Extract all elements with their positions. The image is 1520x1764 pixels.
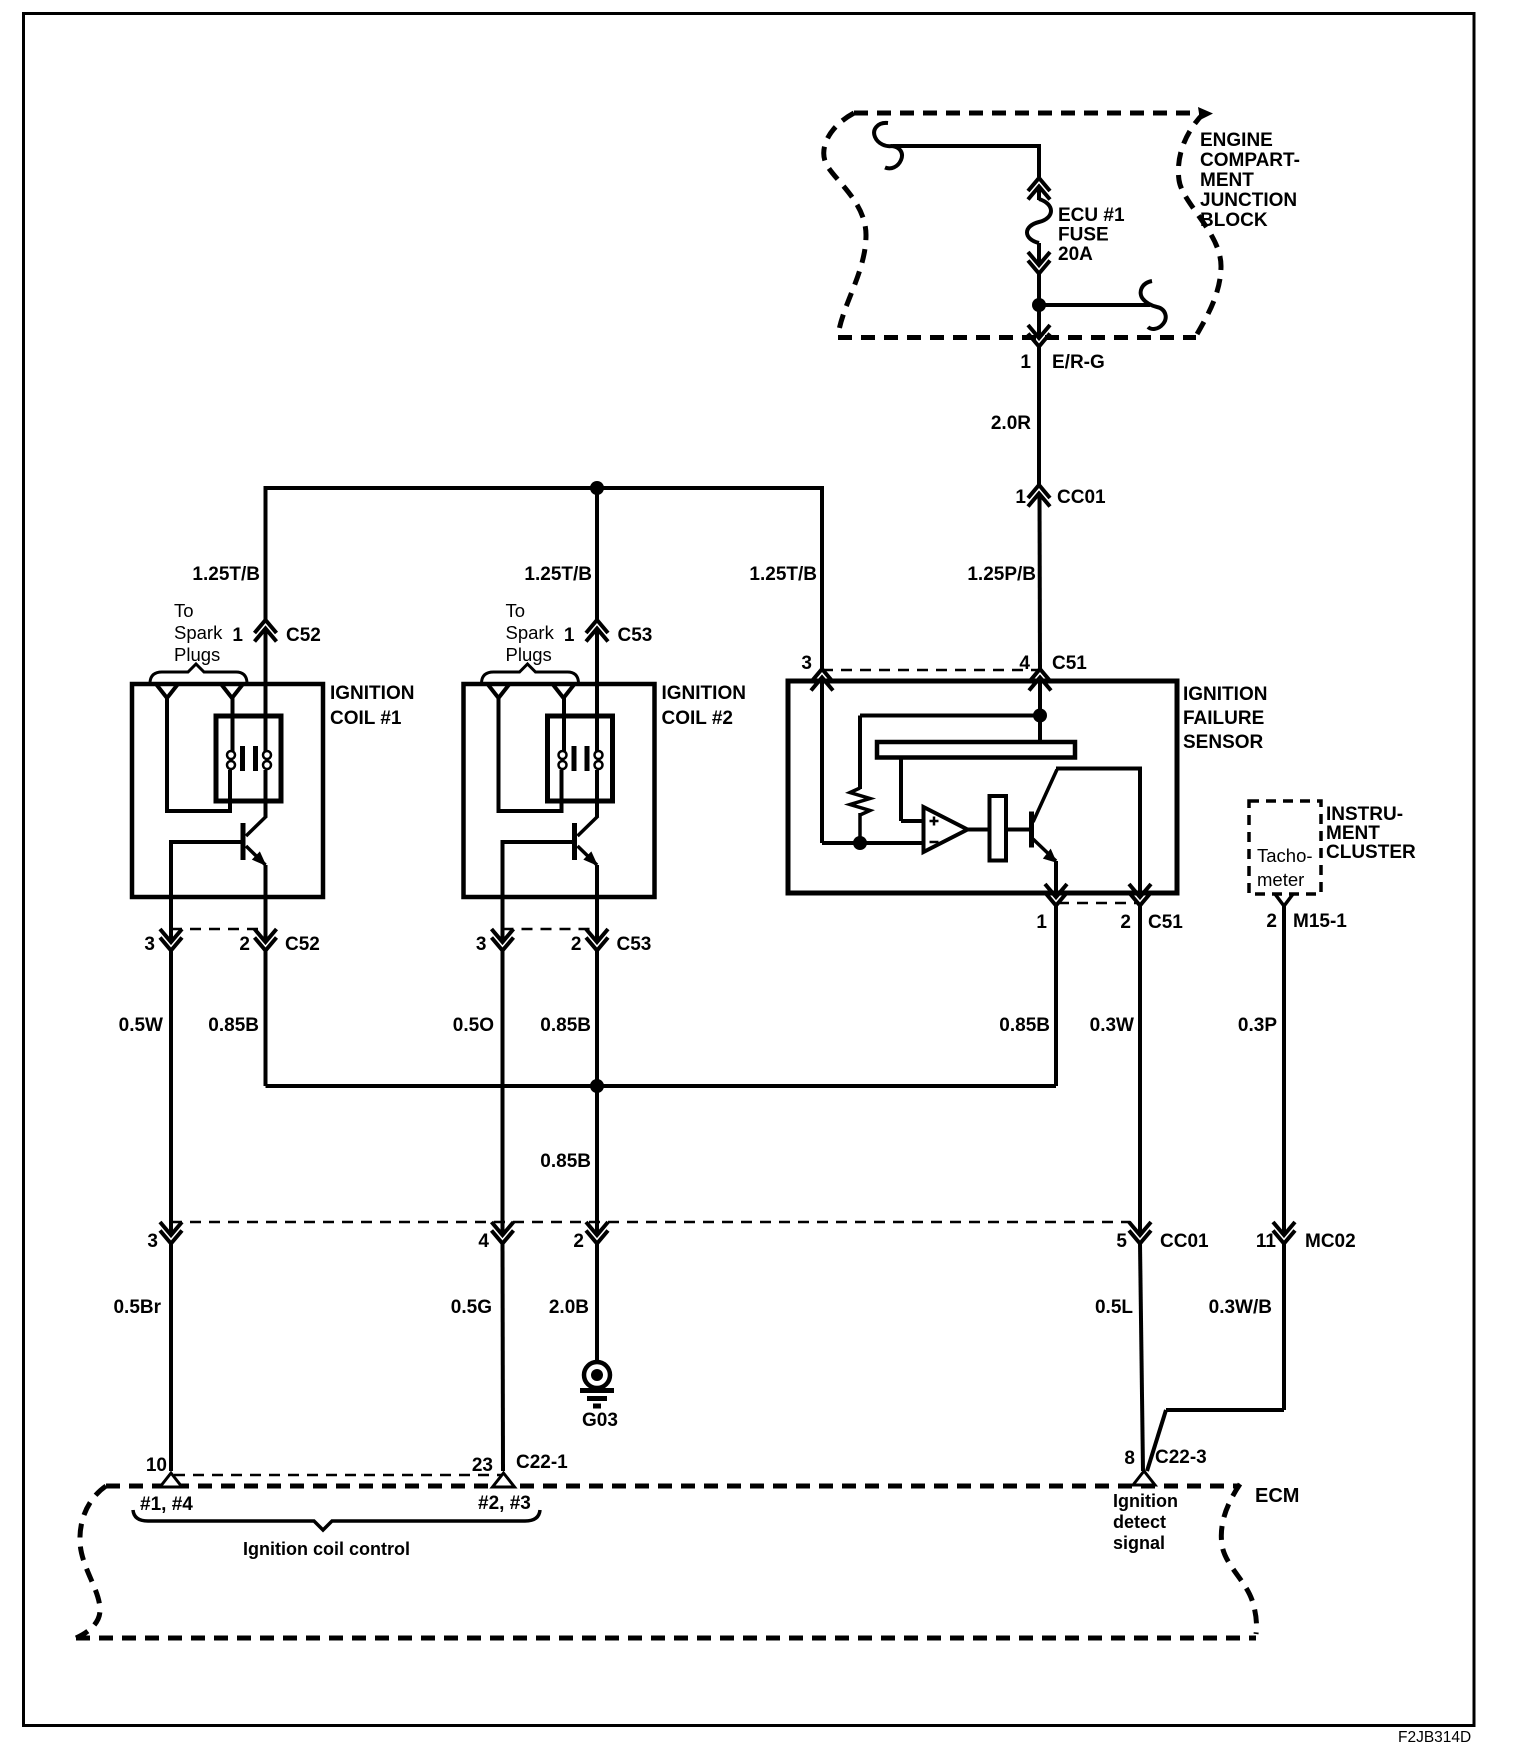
- wire: secondary loop to spark plugs: [499, 696, 562, 811]
- svg-text:3: 3: [801, 653, 812, 674]
- block: ECM (dashed outline): [76, 1484, 1257, 1638]
- junction: ground bus / coil2 tap: [590, 1079, 604, 1093]
- wire 0.3W: sensor pin 2 down: [1138, 906, 1142, 1234]
- connector C52 pin 2 (bottom): [255, 929, 277, 942]
- coupling stage C (isolator box): [990, 796, 1007, 861]
- wire 0.85B: sensor pin 1 to ground bus: [1054, 906, 1058, 1087]
- wire 1.25T/B: bus to C51 pin 3: [820, 486, 824, 669]
- svg-text:2: 2: [571, 934, 582, 955]
- svg-text:M15-1: M15-1: [1293, 911, 1347, 932]
- svg-text:ToSparkPlugs: ToSparkPlugs: [174, 600, 223, 665]
- ignition coil box: IGNITION COIL #1: [132, 684, 323, 897]
- wire: isolator to transistor base: [1006, 828, 1030, 832]
- svg-text:2: 2: [1266, 911, 1277, 932]
- wire 0.3W/B: MC02 pin 11 down: [1282, 1244, 1286, 1411]
- wire: tachometer branch to ECM pin 8: [1166, 1408, 1284, 1412]
- wire: plate tap to comparator plus: [899, 757, 903, 821]
- junction: fuse output node: [1032, 298, 1046, 312]
- wire: junction block top feed: [893, 144, 1039, 148]
- svg-text:INSTRU-MENTCLUSTER: INSTRU-MENTCLUSTER: [1326, 804, 1416, 863]
- wire: transistor base lead: [503, 840, 575, 844]
- connector C22-3 pin 8 (ECM): [1133, 1471, 1155, 1485]
- wire 0.5W: C52 pin 3 down: [169, 950, 173, 1233]
- svg-text:11: 11: [1256, 1231, 1277, 1252]
- wire: resistor top to supply node: [858, 716, 862, 790]
- wire: collector to pin 2 branch: [1056, 767, 1140, 771]
- svg-text:CC01: CC01: [1057, 487, 1106, 508]
- junction: top bus / coil2 tap: [590, 481, 604, 495]
- wire 0.5Br: CC01 pin 3 to ECM pin 10: [169, 1244, 173, 1472]
- svg-text:8: 8: [1124, 1448, 1135, 1469]
- svg-text:C53: C53: [617, 934, 652, 955]
- wire 0.5O: C53 pin 3 down: [501, 950, 505, 1233]
- svg-text:1: 1: [1015, 487, 1026, 508]
- svg-text:2: 2: [573, 1231, 584, 1252]
- wire 0.5G: CC01 pin 4 to ECM pin 23: [501, 1244, 506, 1472]
- brace: to spark plugs: [482, 664, 579, 682]
- transistor Q (IGNITION COIL #2) NPN driver: [575, 816, 599, 865]
- junction: sensor supply node: [1033, 709, 1047, 723]
- svg-text:0.5L: 0.5L: [1095, 1297, 1133, 1318]
- wire 1.25T/B: bus to C52 pin 1: [264, 486, 268, 620]
- svg-text:0.5W: 0.5W: [119, 1015, 163, 1036]
- wire: base lead to pin 3: [169, 897, 173, 940]
- junction: resistor bottom node: [853, 836, 867, 850]
- connector C51 pin 1 (sensor bottom): [1045, 884, 1067, 897]
- svg-text:0.3P: 0.3P: [1238, 1015, 1277, 1036]
- svg-text:2.0R: 2.0R: [991, 413, 1031, 434]
- svg-text:#2, #3: #2, #3: [478, 1493, 531, 1514]
- connector C52 pin 1 (top): [255, 620, 277, 633]
- dashed connector line C53 (bottom): [503, 928, 598, 931]
- svg-text:0.85B: 0.85B: [999, 1015, 1050, 1036]
- svg-text:C52: C52: [286, 625, 321, 646]
- connector CC01 pin 4: [492, 1222, 514, 1235]
- svg-text:1.25T/B: 1.25T/B: [524, 564, 592, 585]
- wire: transistor base lead: [171, 840, 243, 844]
- svg-text:C53: C53: [618, 625, 653, 646]
- dashed connector line C22-1 row: [174, 1474, 504, 1477]
- svg-text:IGNITIONFAILURESENSOR: IGNITIONFAILURESENSOR: [1183, 684, 1267, 753]
- wire: sensor pin 4 internal: [1038, 678, 1042, 745]
- spark plug terminal B: [553, 684, 575, 698]
- svg-text:IGNITIONCOIL #2: IGNITIONCOIL #2: [662, 683, 746, 729]
- connector C52 pin 3 (bottom): [160, 929, 182, 942]
- sensor box: IGNITION FAILURE SENSOR: [788, 681, 1177, 893]
- svg-text:Ignition coil control: Ignition coil control: [243, 1539, 410, 1559]
- svg-text:C22-1: C22-1: [516, 1452, 568, 1473]
- svg-text:0.3W: 0.3W: [1090, 1015, 1134, 1036]
- wire 0.5L: CC01 pin 5 to ECM pin 8: [1140, 1244, 1143, 1472]
- wire: emitter to pin 1: [1054, 861, 1058, 895]
- connector M15-1 pin 2 (cluster exit): [1275, 894, 1293, 906]
- svg-text:3: 3: [144, 934, 155, 955]
- dashed connector line C51 (bottom): [1058, 902, 1138, 905]
- wire 2.0R: E/R-G to CC01: [1037, 347, 1041, 486]
- svg-text:1: 1: [232, 625, 243, 646]
- connector MC02 pin 11: [1273, 1222, 1295, 1235]
- spark plug terminal A: [488, 684, 510, 698]
- svg-text:CC01: CC01: [1160, 1231, 1209, 1252]
- svg-text:C22-3: C22-3: [1155, 1447, 1207, 1468]
- wire: sensor pin 3 internal: [820, 678, 824, 844]
- connector E/R-G pin 1 (junction block exit): [1028, 325, 1050, 338]
- brace: ignition coil control group: [133, 1510, 540, 1530]
- wire 0.85B: bus to CC01 pin 2: [595, 1086, 599, 1233]
- svg-text:Ignitiondetectsignal: Ignitiondetectsignal: [1113, 1491, 1178, 1553]
- svg-text:0.5G: 0.5G: [451, 1297, 492, 1318]
- svg-text:ENGINECOMPART-MENTJUNCTIONBLOC: ENGINECOMPART-MENTJUNCTIONBLOCK: [1200, 130, 1300, 231]
- transistor Q2 (sensor output) NPN: [1032, 770, 1058, 863]
- ground G03: [580, 1362, 614, 1406]
- transformer T (IGNITION COIL #1): [216, 716, 281, 801]
- svg-text:2: 2: [239, 934, 250, 955]
- svg-text:0.5Br: 0.5Br: [113, 1297, 161, 1318]
- wire: ground bus (horizontal): [266, 1084, 1057, 1088]
- svg-text:0.3W/B: 0.3W/B: [1209, 1297, 1272, 1318]
- wire 1.25P/B: CC01 to C51 pin 4: [1038, 494, 1043, 670]
- svg-text:1.25T/B: 1.25T/B: [192, 564, 260, 585]
- connector CC01 pin 5: [1129, 1222, 1151, 1235]
- dashed connector line CC01 row: [171, 1221, 1130, 1224]
- wire 0.3P: tachometer to MC02: [1282, 906, 1286, 1233]
- svg-text:F2JB314D: F2JB314D: [1398, 1729, 1471, 1746]
- dashed connector line C52 (bottom): [171, 928, 266, 931]
- wire: emitter lead to pin 2: [595, 865, 599, 940]
- svg-text:4: 4: [478, 1231, 489, 1252]
- wire: internal node to comparator minus: [822, 841, 924, 845]
- connector CC01 pin 2: [586, 1222, 608, 1235]
- svg-text:0.85B: 0.85B: [208, 1015, 259, 1036]
- resistor R (sense): [850, 788, 870, 815]
- wire: comparator output: [968, 828, 990, 832]
- wire 0.85B: C53 pin 2 to ground bus: [595, 949, 599, 1086]
- wire: primary lead from connector 1: [595, 629, 599, 752]
- wire stub hook (left, inside junction block): [874, 123, 902, 168]
- svg-text:E/R-G: E/R-G: [1052, 352, 1105, 373]
- wire 0.85B: C52 pin 2 to ground bus: [264, 949, 268, 1086]
- svg-text:3: 3: [476, 934, 487, 955]
- svg-text:2.0B: 2.0B: [549, 1297, 589, 1318]
- connector C53 pin 3 (bottom): [492, 929, 514, 942]
- connector CC01 pin 1: [1028, 485, 1050, 498]
- connector C51 pin 3 (sensor top): [811, 669, 833, 682]
- wire: to E/R-G connector: [1037, 305, 1041, 336]
- svg-text:1: 1: [1036, 912, 1047, 933]
- svg-text:ECU #1FUSE20A: ECU #1FUSE20A: [1058, 205, 1125, 265]
- svg-text:0.5O: 0.5O: [453, 1015, 494, 1036]
- svg-text:10: 10: [146, 1455, 167, 1476]
- svg-text:IGNITIONCOIL #1: IGNITIONCOIL #1: [330, 683, 414, 729]
- svg-text:0.85B: 0.85B: [540, 1015, 591, 1036]
- svg-text:C51: C51: [1052, 653, 1087, 674]
- svg-text:#1, #4: #1, #4: [140, 1494, 193, 1515]
- connector C53 pin 2 (bottom): [586, 929, 608, 942]
- svg-text:G03: G03: [582, 1410, 618, 1431]
- spark plug terminal A: [156, 684, 178, 698]
- dashed connector line C51 (top): [822, 669, 1039, 672]
- connector CC01 pin 3: [160, 1222, 182, 1235]
- wire: secondary top lead: [562, 696, 566, 751]
- fuse F1: ECU #1 FUSE 20A: [1027, 178, 1051, 300]
- ignition coil box: IGNITION COIL #2: [464, 684, 655, 897]
- wire: secondary top lead: [231, 696, 235, 751]
- block: ENGINE COMPARTMENT JUNCTION BLOCK (dashed outline): [824, 113, 1221, 338]
- svg-text:C51: C51: [1148, 912, 1183, 933]
- wire: top distribution bus: [266, 486, 823, 490]
- block: tachometer (dashed box): [1249, 801, 1321, 894]
- spark plug terminal B: [221, 684, 243, 698]
- wire: emitter lead to pin 2: [264, 865, 268, 940]
- corner mark: junction block top-right: [1198, 107, 1213, 120]
- brace: to spark plugs: [150, 664, 247, 682]
- svg-text:MC02: MC02: [1305, 1231, 1356, 1252]
- svg-text:2: 2: [1120, 912, 1131, 933]
- connector C51 pin 2 (sensor bottom): [1129, 884, 1151, 897]
- svg-text:5: 5: [1116, 1231, 1127, 1252]
- svg-text:ToSparkPlugs: ToSparkPlugs: [506, 600, 555, 665]
- connector C51 pin 4 (sensor top): [1029, 669, 1051, 682]
- svg-text:1.25P/B: 1.25P/B: [967, 564, 1036, 585]
- op-amp U1 (comparator): [924, 807, 968, 852]
- transformer T (IGNITION COIL #2): [548, 716, 613, 801]
- svg-text:1: 1: [564, 625, 575, 646]
- transistor Q (IGNITION COIL #1) NPN driver: [243, 816, 267, 865]
- wire: primary lead from connector 1: [264, 629, 268, 752]
- wire 1.25T/B: bus to C53 pin 1: [595, 488, 599, 620]
- connector C53 pin 1 (top): [586, 620, 608, 633]
- wire 2.0B: CC01 pin 2 to ground G03: [595, 1244, 599, 1363]
- connector C22-1 pin 10 (ECM): [160, 1473, 182, 1487]
- wire: base lead to pin 3: [501, 897, 505, 940]
- svg-text:Tacho-meter: Tacho-meter: [1257, 845, 1313, 890]
- svg-text:1.25T/B: 1.25T/B: [749, 564, 817, 585]
- svg-text:C52: C52: [285, 934, 320, 955]
- svg-text:3: 3: [147, 1231, 158, 1252]
- svg-text:ECM: ECM: [1255, 1485, 1299, 1507]
- svg-text:23: 23: [472, 1455, 493, 1476]
- wire stub hook (right, inside junction block): [1039, 303, 1150, 307]
- wire: primary lead to transistor: [264, 770, 268, 817]
- svg-text:0.85B: 0.85B: [540, 1151, 591, 1172]
- wire: secondary loop to spark plugs: [167, 696, 230, 811]
- svg-text:1: 1: [1020, 352, 1031, 373]
- shunt bar (current sense plate): [877, 742, 1075, 758]
- connector C22-1 pin 23 (ECM): [493, 1473, 515, 1487]
- wire: primary lead to transistor: [595, 770, 599, 817]
